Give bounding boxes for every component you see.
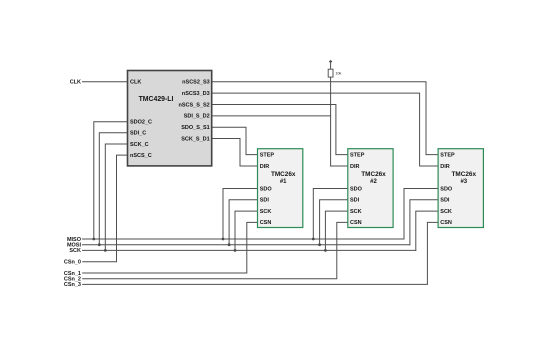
net STEP1 (SDO_S_S1 to STEP #1): [212, 127, 258, 154]
svg-text:DIR: DIR: [350, 164, 360, 170]
junction MOSI/SDI#2: [318, 243, 321, 246]
net CSn_2 (CSn_2 to CSN #2): [83, 222, 348, 278]
svg-text:STEP: STEP: [350, 152, 365, 158]
svg-text:TMC429-LI: TMC429-LI: [139, 96, 174, 103]
net DIR2 (SDI_S_D2 to DIR #2, with pull-up): [212, 64, 348, 167]
net MISO (MISO / SDO2_C / drivers SDO bus): [83, 122, 439, 239]
net CLK: [83, 81, 128, 83]
svg-text:TMC26x: TMC26x: [361, 171, 386, 178]
net DIR1 (SCK_S_D1 to DIR #1): [212, 139, 258, 167]
junction MOSI/SDI#1: [228, 243, 231, 246]
net SCK (SCK / SCK_C / drivers SCK bus): [83, 144, 439, 250]
svg-text:CLK: CLK: [130, 80, 141, 86]
svg-text:SDO2_C: SDO2_C: [130, 120, 152, 126]
junction MISO/SDO#1: [222, 238, 225, 241]
junction MISO/SDO#2: [312, 238, 315, 241]
svg-text:CSN: CSN: [440, 220, 452, 226]
svg-text:10k: 10k: [336, 72, 342, 76]
svg-text:SCK: SCK: [260, 209, 272, 215]
svg-text:nSCS3_D3: nSCS3_D3: [182, 91, 210, 97]
net DIR3 (nSCS3_D3 to DIR #3): [212, 93, 438, 166]
IC U1 TMC429-LI: [128, 71, 212, 166]
svg-text:SDO: SDO: [350, 186, 363, 192]
svg-text:STEP: STEP: [260, 152, 275, 158]
junction MOSI/SDI_C: [98, 243, 101, 246]
svg-text:TMC26x: TMC26x: [271, 171, 296, 178]
svg-text:#3: #3: [460, 179, 467, 185]
IC U2 TMC26x #1: [258, 149, 303, 228]
svg-text:CSn_3: CSn_3: [64, 282, 81, 288]
net STEP3 (nSCS2_S3 to STEP #3): [212, 82, 438, 155]
net STEP2 (nSCS_S_S2 to STEP #2): [212, 105, 348, 155]
IC U4 TMC26x #3: [438, 149, 483, 228]
svg-text:SCK: SCK: [440, 209, 452, 215]
VCC supply pin symbol: [329, 60, 332, 63]
svg-text:DIR: DIR: [440, 164, 450, 170]
svg-text:SDI_C: SDI_C: [130, 131, 146, 137]
svg-text:SCK: SCK: [69, 248, 81, 254]
net CSn_3 (CSn_3 to CSN #3): [83, 222, 438, 284]
svg-text:CLK: CLK: [70, 80, 81, 86]
svg-text:#2: #2: [370, 179, 377, 185]
svg-text:SDO_S_S1: SDO_S_S1: [181, 125, 209, 131]
svg-text:SDI: SDI: [440, 198, 450, 204]
IC U3 TMC26x #2: [348, 149, 393, 228]
junction MISO/SDO2_C: [92, 238, 95, 241]
junction SCK/SCK#2: [324, 249, 327, 252]
svg-text:CSN: CSN: [260, 220, 272, 226]
junction SCK/SCK#1: [234, 249, 237, 252]
svg-text:SCK_C: SCK_C: [130, 142, 149, 148]
svg-text:STEP: STEP: [440, 152, 455, 158]
svg-text:TMC26x: TMC26x: [452, 171, 477, 178]
net MOSI (MOSI / SDI_C / drivers SDI bus): [83, 133, 439, 245]
resistor R1 pull-up: [328, 69, 333, 77]
svg-text:#1: #1: [280, 179, 287, 185]
svg-text:CSn_0: CSn_0: [64, 260, 81, 266]
svg-text:SDI_S_D2: SDI_S_D2: [184, 114, 210, 120]
svg-text:SDO: SDO: [440, 186, 453, 192]
svg-text:nSCS_C: nSCS_C: [130, 153, 152, 159]
svg-text:SCK: SCK: [350, 209, 362, 215]
svg-text:SDO: SDO: [260, 186, 273, 192]
svg-text:SDI: SDI: [260, 198, 270, 204]
net CSn_1 (CSn_1 to CSN #1): [83, 222, 258, 273]
net CSn_0 (CSn_0 to nSCS_C): [83, 155, 128, 262]
svg-text:DIR: DIR: [260, 164, 270, 170]
svg-text:SCK_S_D1: SCK_S_D1: [181, 136, 209, 142]
svg-text:nSCS_S_S2: nSCS_S_S2: [179, 102, 210, 108]
svg-text:SDI: SDI: [350, 198, 360, 204]
junction SCK/SCK_C: [104, 249, 107, 252]
svg-text:nSCS2_S3: nSCS2_S3: [182, 80, 210, 86]
svg-text:CSN: CSN: [350, 220, 362, 226]
